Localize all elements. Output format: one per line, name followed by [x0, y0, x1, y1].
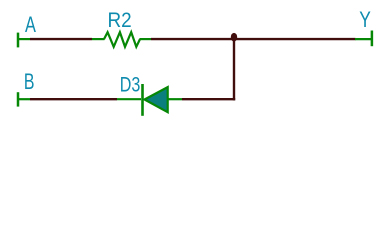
svg-text:B: B	[24, 69, 35, 94]
svg-text:R2: R2	[108, 7, 132, 32]
svg-text:A: A	[25, 12, 36, 37]
svg-text:Y: Y	[359, 7, 371, 32]
svg-text:D3: D3	[120, 73, 141, 96]
